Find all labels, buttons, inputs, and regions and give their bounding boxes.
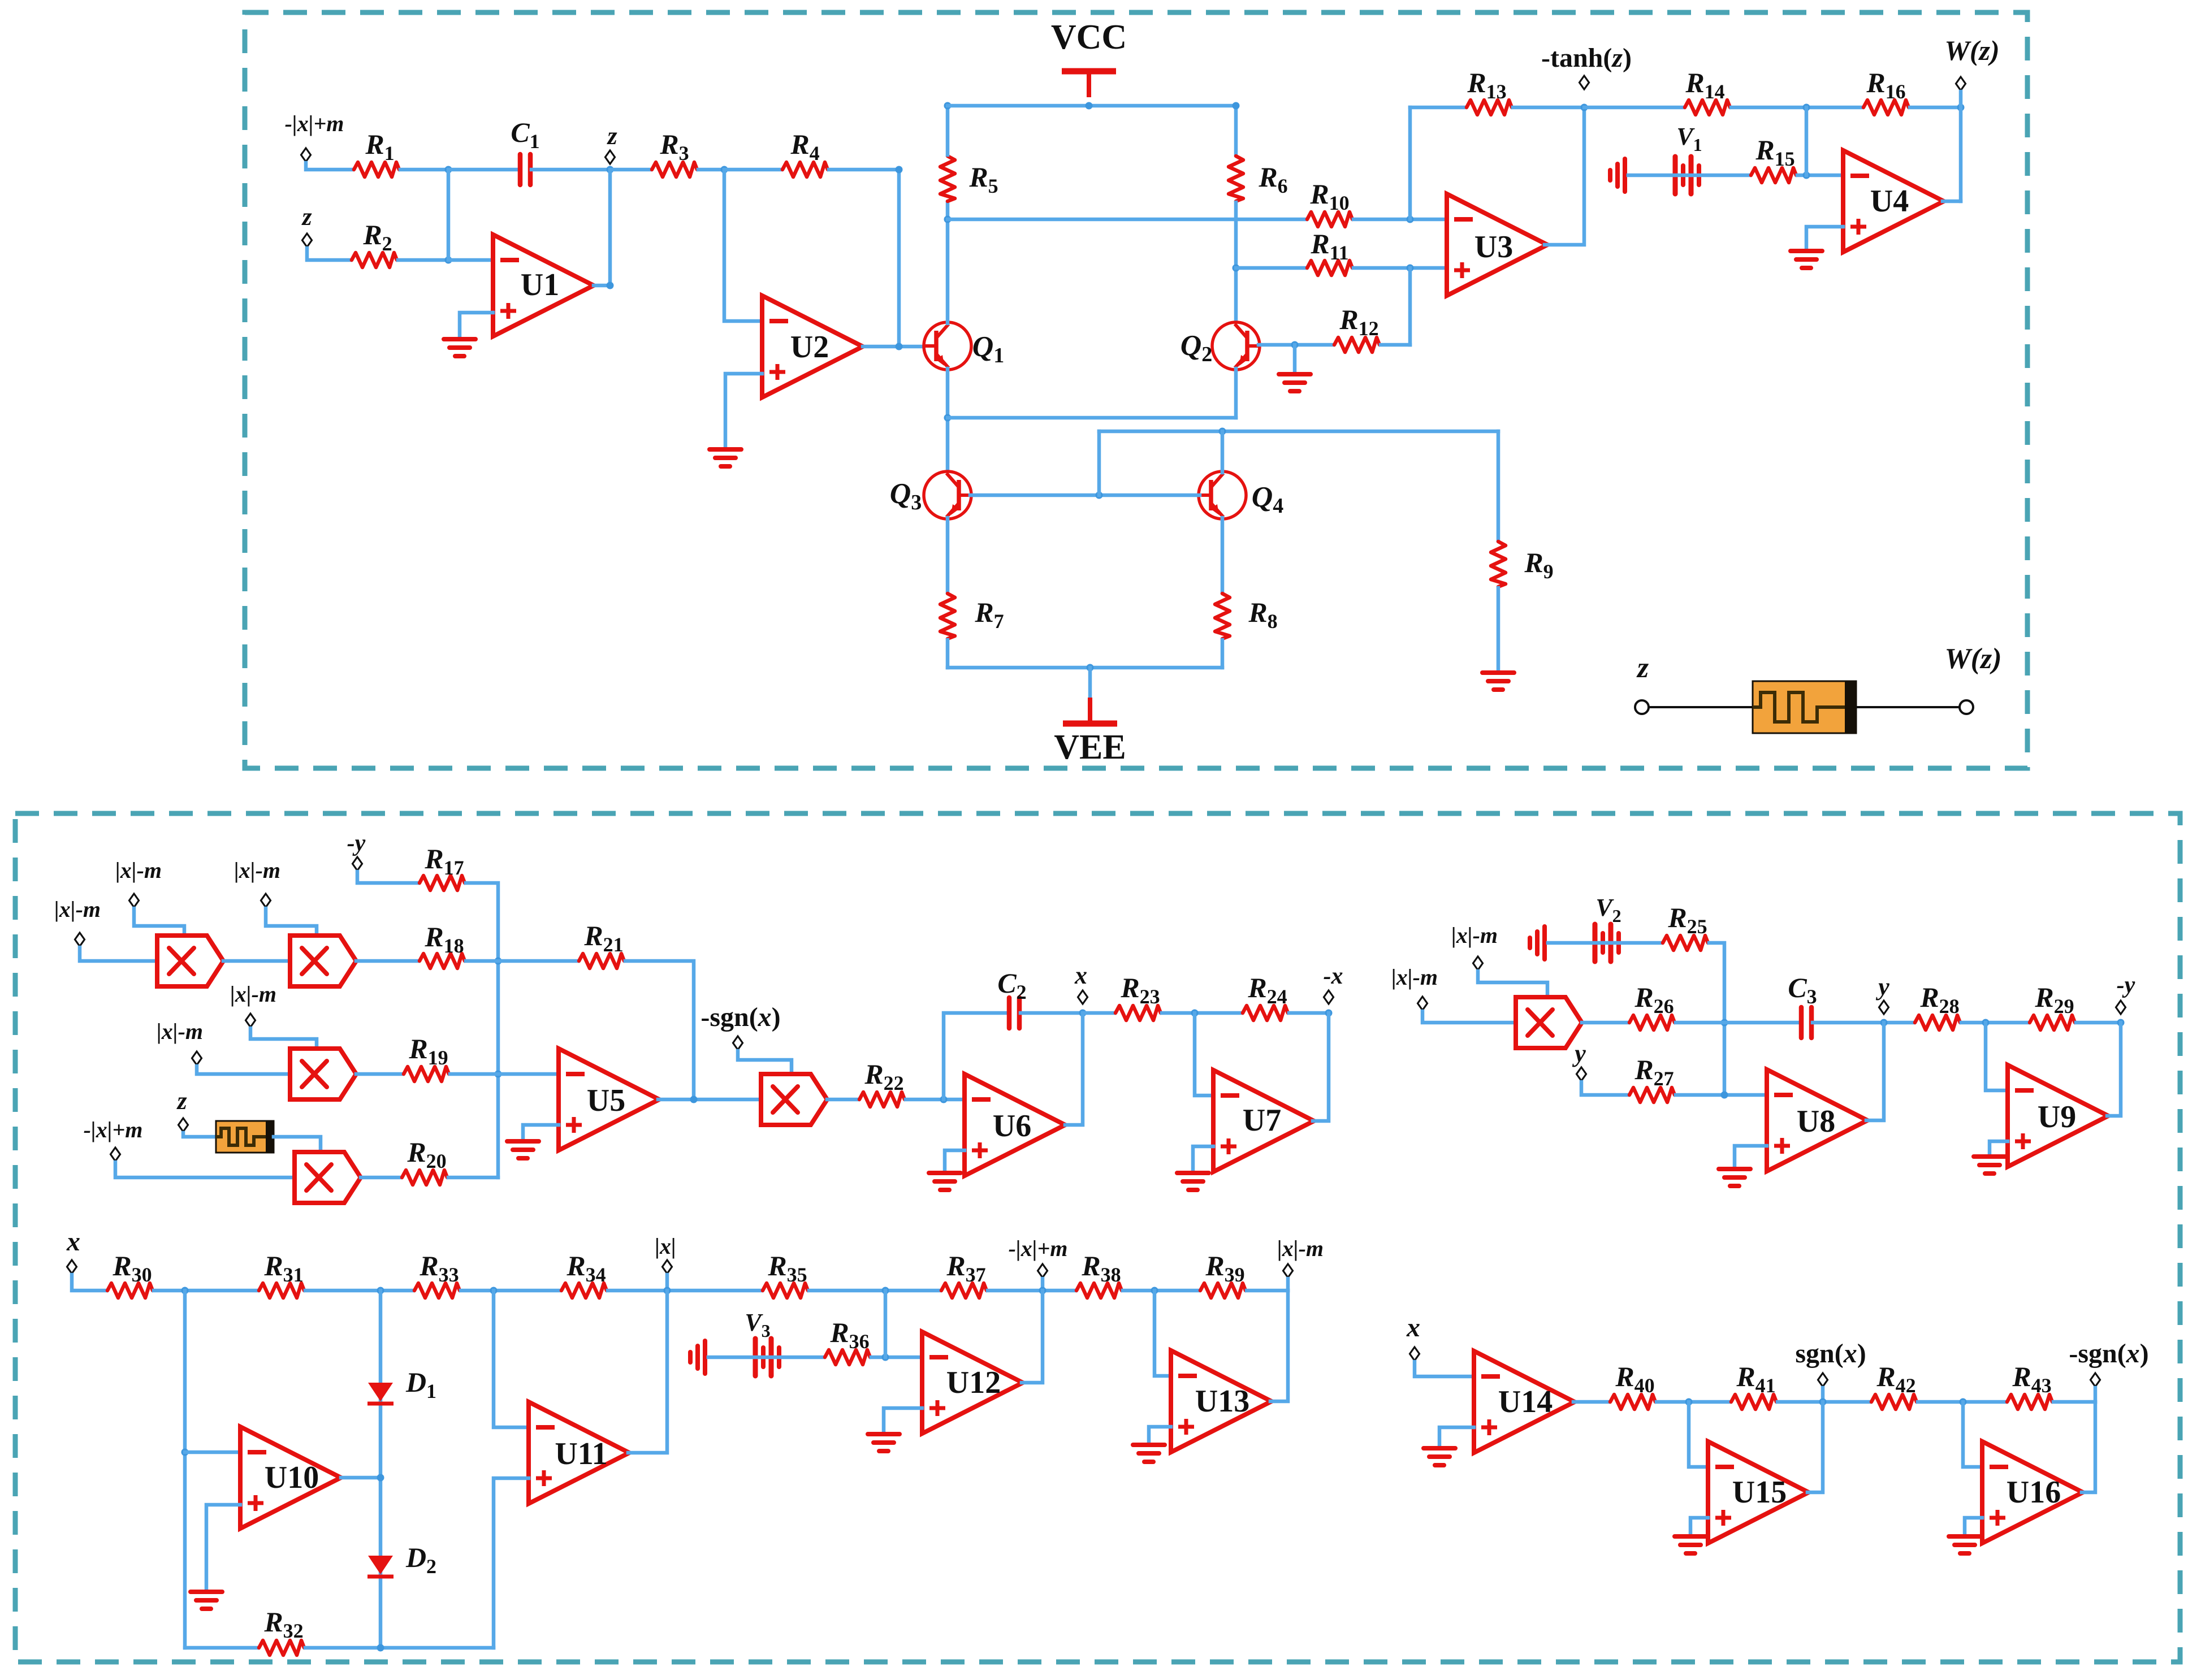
node |x|-m f <box>1473 956 1483 970</box>
wire <box>115 1162 295 1177</box>
svg-text:Q1: Q1 <box>972 331 1005 367</box>
wire <box>305 1289 413 1293</box>
wire <box>523 1125 559 1141</box>
junction <box>1880 1019 1888 1027</box>
junction <box>1291 341 1299 349</box>
junction <box>445 257 452 264</box>
wire <box>884 1408 922 1434</box>
wire <box>2094 1388 2098 1402</box>
svg-text:C3: C3 <box>1788 972 1817 1008</box>
svg-text:y: y <box>1875 973 1889 1001</box>
resistor R18 <box>420 954 465 968</box>
wire <box>1313 1013 1329 1121</box>
junction <box>940 1096 948 1103</box>
svg-text:y: y <box>1572 1040 1586 1067</box>
wire <box>1195 1013 1213 1096</box>
wire <box>1573 1400 1609 1404</box>
wire <box>1065 1013 1083 1125</box>
wire <box>1422 1011 1516 1023</box>
junction <box>181 1449 189 1456</box>
junction <box>882 1287 889 1294</box>
junction <box>882 1354 889 1361</box>
svg-text:|x|-m: |x|-m <box>1451 923 1498 948</box>
ground U4 ground <box>1791 251 1822 268</box>
wire <box>1234 369 1238 418</box>
wire <box>945 1150 965 1173</box>
wire <box>448 168 519 172</box>
wire <box>698 168 724 172</box>
svg-text:-x: -x <box>1324 963 1343 989</box>
op-amp U9 <box>2008 1065 2108 1167</box>
wire <box>724 168 781 172</box>
wire <box>1083 1011 1114 1015</box>
resistor R4 <box>782 162 828 177</box>
svg-text:Q2: Q2 <box>1181 330 1213 366</box>
wire <box>1478 971 1547 997</box>
svg-text:D2: D2 <box>405 1542 436 1578</box>
wire <box>1289 1011 1329 1015</box>
svg-text:U12: U12 <box>946 1365 1001 1400</box>
svg-text:R16: R16 <box>1866 67 1905 103</box>
svg-text:R33: R33 <box>419 1250 459 1286</box>
resistor R26 <box>1629 1015 1675 1030</box>
node z input <box>302 233 312 247</box>
wire <box>1088 668 1092 698</box>
op-amp U14 <box>1474 1351 1575 1453</box>
wire <box>948 416 1236 420</box>
ground U1 ground <box>444 339 475 356</box>
junction <box>495 958 502 965</box>
svg-text:R26: R26 <box>1634 981 1674 1017</box>
multiplier X5 <box>761 1074 827 1125</box>
wire <box>628 1291 667 1453</box>
wire <box>1963 1402 1982 1467</box>
wire <box>829 170 899 347</box>
resistor R10 <box>1307 212 1352 227</box>
svg-text:U13: U13 <box>1195 1384 1249 1419</box>
capacitor C1 <box>520 154 530 185</box>
wire <box>448 258 493 262</box>
node |x|-m g <box>1418 997 1428 1010</box>
junction <box>1407 216 1414 223</box>
junction <box>445 166 452 174</box>
svg-text:W(z): W(z) <box>1944 34 1999 66</box>
svg-text:|x|-m: |x|-m <box>234 858 280 883</box>
junction <box>1581 104 1588 111</box>
svg-text:Q3: Q3 <box>890 478 922 514</box>
node |x|-m e <box>192 1051 202 1065</box>
wire <box>1986 1023 2008 1090</box>
wire <box>738 1051 792 1074</box>
svg-text:x: x <box>66 1227 80 1257</box>
wire <box>948 104 1236 108</box>
resistor R13 <box>1467 100 1512 115</box>
node |x|-m c <box>261 894 271 907</box>
wire <box>1866 1023 1884 1120</box>
transistor Q4 <box>1199 471 1246 519</box>
svg-text:R15: R15 <box>1755 134 1794 170</box>
svg-text:U14: U14 <box>1498 1384 1553 1419</box>
svg-text:|x|-m: |x|-m <box>157 1019 203 1044</box>
svg-text:x: x <box>1406 1313 1420 1343</box>
svg-text:VEE: VEE <box>1054 728 1126 767</box>
wire <box>357 872 418 883</box>
svg-text:R40: R40 <box>1615 1361 1654 1397</box>
wire <box>1806 227 1843 251</box>
transistor Q3 <box>924 471 971 519</box>
wire <box>466 883 498 1177</box>
wire <box>1581 1082 1628 1095</box>
wire <box>80 947 157 961</box>
wire <box>466 959 578 963</box>
terminal W(z) memristor <box>1960 700 1973 714</box>
node node y <box>1879 1001 1889 1014</box>
wire <box>306 163 353 170</box>
svg-text:C1: C1 <box>511 116 539 153</box>
resistor R16 <box>1863 100 1909 115</box>
svg-text:R34: R34 <box>566 1250 606 1286</box>
wire <box>871 1356 922 1359</box>
node -|x|+m b <box>111 1148 120 1161</box>
resistor R8 <box>1215 594 1230 639</box>
node node z <box>606 150 615 164</box>
svg-text:-y: -y <box>347 830 366 856</box>
resistor R6 <box>1229 156 1243 201</box>
wire <box>594 170 610 285</box>
resistor R14 <box>1685 100 1730 115</box>
wire <box>154 1289 258 1293</box>
resistor R38 <box>1076 1283 1122 1298</box>
wire <box>946 518 950 592</box>
svg-text:R31: R31 <box>263 1250 303 1286</box>
wire <box>1497 431 1501 540</box>
op-amp U13 <box>1171 1350 1272 1452</box>
wire <box>1676 1021 1800 1025</box>
wire <box>946 640 950 668</box>
resistor R17 <box>420 876 465 890</box>
wire <box>1408 268 1412 345</box>
wire <box>1584 106 1684 110</box>
junction <box>495 1071 502 1078</box>
wire <box>398 258 448 262</box>
resistor R42 <box>1871 1395 1917 1409</box>
junction <box>1685 1398 1693 1406</box>
resistor R5 <box>940 156 955 201</box>
resistor R1 <box>354 162 399 177</box>
node |x|-m out <box>1283 1264 1293 1278</box>
diode D1 <box>367 1383 394 1404</box>
wire <box>988 1289 1075 1293</box>
wire <box>1354 218 1447 222</box>
svg-text:R41: R41 <box>1736 1361 1775 1397</box>
op-amp U16 <box>1982 1441 2083 1543</box>
junction <box>490 1287 498 1294</box>
op-amp U7 <box>1213 1070 1314 1172</box>
svg-text:R10: R10 <box>1309 178 1349 214</box>
wire <box>1221 640 1225 668</box>
wire <box>1293 345 1297 374</box>
op-amp U5 <box>559 1049 659 1150</box>
wire <box>1041 1279 1045 1291</box>
wire <box>724 170 762 321</box>
wire <box>1221 518 1225 592</box>
svg-text:R8: R8 <box>1248 596 1277 633</box>
wire <box>1807 1402 1823 1492</box>
wire <box>185 1646 258 1650</box>
wire <box>1270 1291 1288 1401</box>
wire <box>379 1291 383 1648</box>
wire <box>1735 1146 1767 1169</box>
svg-text:C2: C2 <box>997 967 1026 1003</box>
svg-text:|x|-m: |x|-m <box>115 858 162 883</box>
svg-text:R1: R1 <box>365 128 394 164</box>
transistor Q2 <box>1212 322 1260 370</box>
resistor R31 <box>259 1283 304 1298</box>
wire <box>448 1176 498 1180</box>
multiplier X1 <box>157 936 223 986</box>
wire <box>1856 706 1960 708</box>
wire <box>183 1291 187 1648</box>
svg-text:Q4: Q4 <box>1252 481 1284 518</box>
wire <box>1582 1021 1628 1025</box>
junction <box>1721 1092 1728 1099</box>
wire <box>1961 1021 2029 1025</box>
node |x|-m b <box>75 933 85 946</box>
svg-text:R30: R30 <box>112 1250 152 1286</box>
svg-text:z: z <box>1636 652 1649 684</box>
junction <box>1086 102 1093 110</box>
resistor R2 <box>352 253 397 267</box>
wire <box>1797 174 1843 177</box>
memristor small memristor <box>216 1121 274 1153</box>
wire <box>206 1505 240 1592</box>
wire <box>447 170 451 260</box>
wire <box>460 313 493 339</box>
op-amp U3 <box>1447 194 1547 296</box>
resistor R30 <box>107 1283 153 1298</box>
resistor R22 <box>859 1092 905 1107</box>
wire <box>72 1275 106 1291</box>
wire <box>827 1098 858 1102</box>
resistor R35 <box>763 1283 808 1298</box>
junction <box>1982 1019 1990 1027</box>
svg-text:R27: R27 <box>1634 1054 1674 1090</box>
wire <box>305 1646 494 1650</box>
op-amp U11 <box>529 1402 629 1504</box>
resistor R3 <box>652 162 697 177</box>
node -|x|+m out <box>1038 1264 1048 1278</box>
wire <box>665 1275 669 1291</box>
resistor R41 <box>1731 1395 1776 1409</box>
svg-text:|x|-m: |x|-m <box>54 897 101 922</box>
wire <box>1221 431 1225 473</box>
wire <box>1259 343 1333 347</box>
dashed border: top sub-circuit box <box>245 12 2027 768</box>
VEE supply <box>1054 698 1126 767</box>
node z small <box>179 1118 188 1132</box>
svg-text:U4: U4 <box>1870 184 1909 219</box>
op-amp U6 <box>965 1074 1065 1176</box>
ground U14 ground <box>1424 1448 1455 1465</box>
wire <box>1193 1146 1213 1173</box>
wire <box>946 202 950 323</box>
junction <box>944 216 952 223</box>
svg-text:x: x <box>1074 962 1087 989</box>
svg-text:U11: U11 <box>555 1436 607 1471</box>
wire <box>307 248 351 260</box>
svg-text:R20: R20 <box>407 1136 446 1172</box>
ground U10 ground <box>191 1592 222 1609</box>
svg-text:R7: R7 <box>974 596 1004 633</box>
wire <box>948 666 1222 670</box>
wire <box>1234 202 1238 323</box>
wire <box>1354 266 1447 270</box>
junction <box>1039 1287 1047 1294</box>
junction <box>607 166 614 174</box>
wire <box>1513 106 1584 110</box>
multiplier X4 <box>295 1152 361 1203</box>
svg-text:U1: U1 <box>521 267 559 302</box>
svg-text:R37: R37 <box>946 1250 985 1286</box>
junction <box>377 1644 384 1652</box>
junction <box>1096 492 1103 499</box>
wire <box>250 1028 317 1049</box>
svg-text:R5: R5 <box>968 161 998 197</box>
node node W(z) <box>1956 77 1966 90</box>
node -|x|+m input <box>301 148 311 162</box>
ground U7 ground <box>1177 1173 1209 1190</box>
junction <box>377 1474 384 1482</box>
op-amp U1 <box>493 235 594 336</box>
wire <box>274 1137 321 1152</box>
ground U13 ground <box>1133 1445 1165 1462</box>
wire <box>1990 1141 2008 1157</box>
svg-text:R36: R36 <box>829 1317 869 1353</box>
ground U2 ground <box>710 449 741 466</box>
wire <box>610 168 651 172</box>
wire <box>1236 266 1306 270</box>
svg-text:z: z <box>301 203 312 231</box>
wire <box>2107 1023 2121 1116</box>
junction <box>1219 428 1226 435</box>
junction <box>1191 1010 1199 1017</box>
svg-text:-sgn(x): -sgn(x) <box>700 1002 780 1032</box>
junction <box>664 1287 671 1294</box>
resistor R39 <box>1200 1283 1246 1298</box>
junction <box>1407 265 1414 272</box>
wire <box>1689 1402 1708 1467</box>
svg-text:R21: R21 <box>583 920 623 956</box>
junction <box>2117 1019 2125 1027</box>
memristor W memristor <box>1753 681 1856 733</box>
svg-text:U5: U5 <box>587 1083 625 1118</box>
resistor R27 <box>1629 1088 1675 1102</box>
svg-text:U2: U2 <box>790 330 829 365</box>
node node |x| <box>663 1260 672 1274</box>
ground U6 ground <box>929 1173 961 1190</box>
svg-text:|x|-m: |x|-m <box>1277 1236 1324 1261</box>
svg-text:-|x|+m: -|x|+m <box>285 111 344 136</box>
svg-text:-|x|+m: -|x|+m <box>1009 1236 1068 1261</box>
ground U8 ground <box>1719 1169 1750 1186</box>
wire <box>946 106 950 155</box>
wire <box>1657 1400 1730 1404</box>
junction <box>1957 104 1965 111</box>
svg-text:W(z): W(z) <box>1944 643 2001 675</box>
multiplier X3 <box>290 1049 356 1099</box>
op-amp U10 <box>240 1427 341 1529</box>
wire <box>1149 1427 1171 1445</box>
resistor R32 <box>259 1640 304 1655</box>
node node -y <box>2116 1001 2126 1014</box>
ground U5 ground <box>507 1141 539 1158</box>
wire <box>1690 1518 1708 1536</box>
op-amp U12 <box>922 1332 1023 1434</box>
svg-text:U15: U15 <box>1732 1475 1787 1510</box>
junction <box>1233 102 1240 110</box>
wire <box>2076 1021 2121 1025</box>
wire <box>658 1098 761 1102</box>
junction <box>944 102 952 110</box>
wire <box>356 1072 403 1076</box>
wire <box>1628 174 1750 177</box>
terminal z memristor <box>1635 700 1649 714</box>
resistor R11 <box>1307 261 1352 275</box>
svg-text:z: z <box>606 122 617 150</box>
wire <box>1123 1289 1199 1293</box>
wire <box>1154 1291 1171 1376</box>
wire <box>1545 107 1584 245</box>
resistor R24 <box>1243 1006 1288 1020</box>
svg-text:R22: R22 <box>864 1058 903 1094</box>
wire <box>1813 1021 1914 1025</box>
node -y input <box>353 857 362 871</box>
wire <box>185 1450 240 1454</box>
wire <box>608 1289 762 1293</box>
svg-text:R38: R38 <box>1081 1250 1121 1286</box>
node node -sgn(x) <box>2091 1373 2100 1387</box>
node |x|-m a <box>129 894 139 907</box>
svg-text:V1: V1 <box>1676 123 1702 155</box>
svg-text:V2: V2 <box>1595 894 1621 926</box>
wire <box>1821 1388 1825 1402</box>
resistor R33 <box>414 1283 460 1298</box>
wire <box>461 1289 560 1293</box>
svg-text:-sgn(x): -sgn(x) <box>2069 1339 2148 1369</box>
svg-text:R32: R32 <box>263 1606 303 1642</box>
wire <box>361 1176 401 1180</box>
node x sgn <box>1410 1347 1420 1361</box>
battery V3 <box>690 1339 779 1376</box>
wire <box>1910 106 1961 110</box>
svg-text:R24: R24 <box>1247 972 1287 1008</box>
svg-text:|x|-m: |x|-m <box>230 981 276 1007</box>
wire <box>863 345 925 349</box>
junction <box>1087 664 1094 672</box>
resistor R43 <box>2007 1395 2052 1409</box>
junction <box>181 1287 189 1294</box>
svg-text:V3: V3 <box>745 1309 770 1341</box>
wire <box>1415 1362 1474 1376</box>
junction <box>607 282 614 289</box>
svg-text:VCC: VCC <box>1051 18 1127 57</box>
resistor R40 <box>1610 1395 1655 1409</box>
ground R9 ground <box>1482 673 1514 690</box>
resistor R7 <box>940 594 955 639</box>
svg-text:R19: R19 <box>408 1033 448 1069</box>
svg-text:U3: U3 <box>1474 230 1513 265</box>
svg-text:R35: R35 <box>767 1250 807 1286</box>
